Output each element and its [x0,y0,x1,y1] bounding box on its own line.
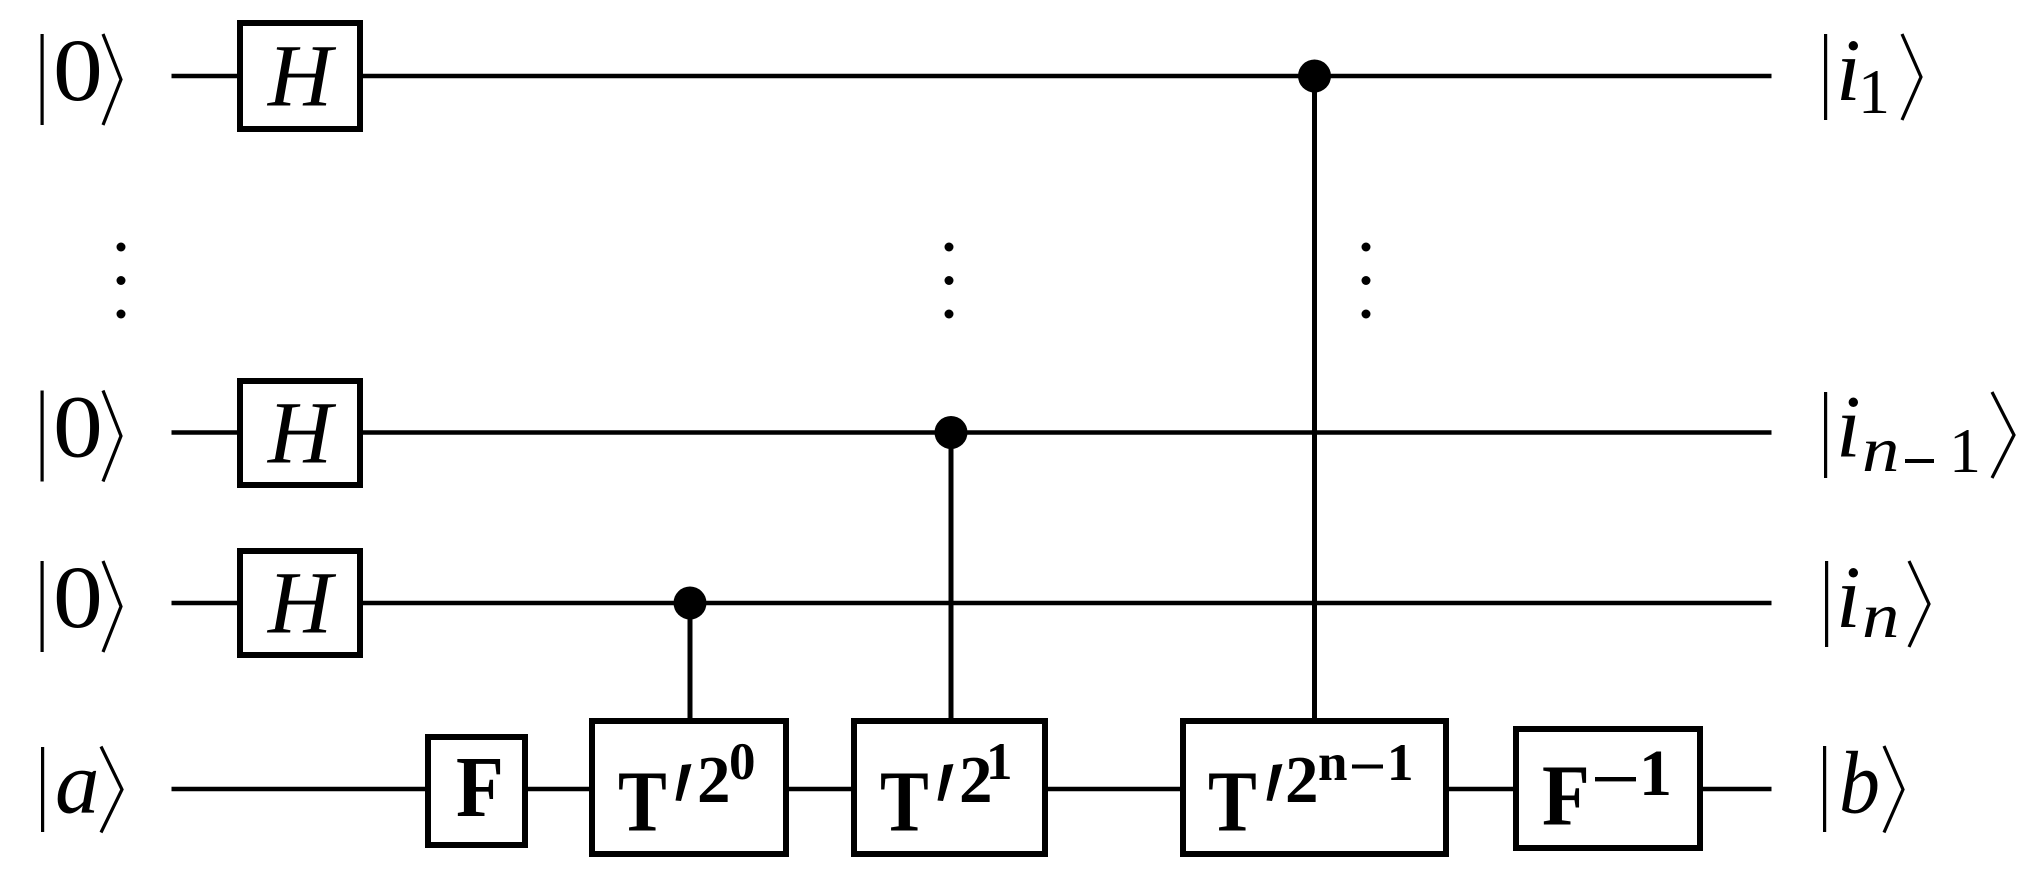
gate H3 box [240,551,360,655]
control dot on qn [674,587,707,620]
ket |0> q(n-1) rangle [103,391,121,482]
svg-text:n: n [1862,415,1899,486]
svg-text:2: 2 [697,743,731,817]
gate T'2^(n-1) exponent minus [1352,765,1383,769]
svg-text:a: a [55,735,100,833]
ket |a> rangle [101,747,122,833]
ket |0> q1 bar [41,34,44,125]
gate H2 box [240,381,360,485]
svg-text:0: 0 [53,378,103,476]
control dot on q1 [1298,60,1331,93]
svg-text:H: H [267,385,337,483]
svg-text:T: T [1208,754,1257,850]
ellipsis dots left [117,243,126,319]
gate H1 box [240,23,360,129]
ellipsis dots middle [945,243,954,319]
ket |0> qn bar [41,561,44,652]
ket |a> bar [41,747,44,832]
gate T'2^0 prime [676,764,692,801]
wire q(n-1) [172,430,238,435]
gate F inverse box [1516,729,1700,848]
svg-text:b: b [1839,734,1880,832]
ket |b> bar [1823,746,1826,832]
gate F inverse exponent minus [1595,777,1636,781]
svg-text:i: i [1836,549,1861,647]
svg-text:0: 0 [53,22,103,120]
control dot on q(n-1) [935,416,968,449]
wire target a [172,787,426,792]
svg-text:1: 1 [1858,56,1890,127]
svg-text:T: T [618,754,667,850]
control line T0 [688,603,693,721]
ket |i1> bar [1824,34,1827,120]
ket |i(n-1)> subscript minus [1905,459,1934,463]
gate T'2^0 box [592,721,786,854]
svg-text:0: 0 [729,733,756,791]
ket |i(n-1)> bar [1824,392,1827,478]
svg-text:i: i [1836,379,1861,477]
control line Tn [1312,76,1317,721]
ellipsis dots right [1362,243,1371,319]
svg-text:F: F [456,738,504,835]
ket |i(n-1)> rangle [1992,392,2014,478]
svg-text:H: H [267,28,337,126]
ket |0> qn rangle [103,561,121,652]
svg-text:T: T [880,754,929,850]
control line T1 [949,433,954,722]
wire qn [172,601,238,606]
gate T'2^(n-1) box [1183,721,1446,854]
svg-text:n: n [1862,581,1899,652]
gate T'2^1 prime [938,764,954,801]
svg-text:2: 2 [1285,743,1319,817]
svg-text:1: 1 [1949,415,1981,486]
svg-text:1: 1 [986,733,1013,791]
gate F box [428,737,525,845]
ket |in> bar [1825,561,1828,647]
ket |0> q(n-1) bar [41,391,44,482]
gate T'2^(n-1) prime [1267,764,1283,801]
svg-text:0: 0 [53,549,103,647]
svg-text:1: 1 [1387,734,1414,792]
ket |b> rangle [1884,746,1903,833]
svg-text:F: F [1542,747,1590,844]
svg-text:1: 1 [1639,737,1672,810]
ket |i1> rangle [1902,34,1921,120]
ket |in> rangle [1909,561,1929,647]
gate T'2^1 box [854,721,1045,854]
svg-text:n: n [1318,734,1347,792]
wire q1 [172,74,238,79]
ket |0> q1 rangle [103,34,121,125]
svg-text:H: H [267,555,337,653]
